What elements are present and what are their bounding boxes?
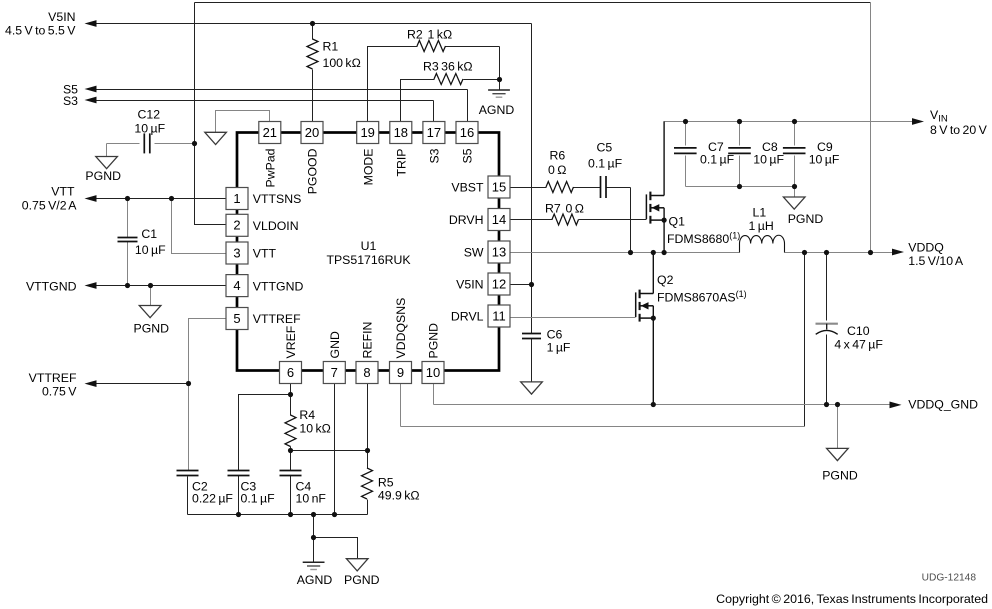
svg-text:13: 13	[492, 244, 506, 259]
svg-text:S5: S5	[461, 148, 475, 163]
svg-text:19: 19	[360, 125, 374, 140]
svg-text:21: 21	[263, 125, 277, 140]
svg-text:VTTGND: VTTGND	[26, 279, 77, 293]
svg-text:R6: R6	[550, 149, 566, 163]
svg-text:VTTREF: VTTREF	[253, 312, 301, 326]
svg-text:R3 36 kΩ: R3 36 kΩ	[423, 60, 473, 74]
svg-text:10: 10	[426, 365, 440, 380]
svg-text:0.1 µF: 0.1 µF	[588, 157, 623, 171]
svg-text:DRVL: DRVL	[451, 310, 484, 324]
svg-text:DRVH: DRVH	[449, 213, 484, 227]
svg-text:100 kΩ: 100 kΩ	[323, 56, 361, 70]
svg-text:9: 9	[397, 365, 404, 380]
svg-text:GND: GND	[328, 331, 342, 358]
svg-text:R4: R4	[299, 408, 315, 422]
svg-text:2: 2	[233, 218, 240, 233]
svg-text:S3: S3	[428, 148, 442, 163]
svg-text:C5: C5	[597, 140, 613, 154]
svg-text:AGND: AGND	[297, 573, 333, 587]
svg-text:R2 1 kΩ: R2 1 kΩ	[407, 28, 452, 42]
svg-text:PGND: PGND	[134, 321, 170, 335]
svg-text:PGOOD: PGOOD	[306, 148, 320, 194]
svg-text:V5IN: V5IN	[456, 278, 483, 292]
svg-text:C12: C12	[138, 108, 161, 122]
svg-text:4: 4	[233, 278, 240, 293]
svg-text:10 µF: 10 µF	[134, 122, 165, 136]
svg-text:4.5 V to 5.5 V: 4.5 V to 5.5 V	[5, 23, 76, 37]
svg-text:0 Ω: 0 Ω	[548, 163, 566, 177]
svg-text:FDMS8670AS(1): FDMS8670AS(1)	[657, 289, 747, 305]
svg-text:MODE: MODE	[361, 149, 375, 186]
svg-text:5: 5	[233, 311, 240, 326]
svg-text:R7 0 Ω: R7 0 Ω	[545, 202, 584, 216]
svg-text:16: 16	[460, 125, 474, 140]
svg-text:VTTREF: VTTREF	[29, 371, 77, 385]
svg-text:Q1: Q1	[669, 214, 686, 228]
svg-text:1 µF: 1 µF	[547, 340, 571, 354]
svg-text:R1: R1	[323, 39, 339, 53]
svg-text:UDG-12148: UDG-12148	[922, 572, 977, 583]
svg-text:0.1 µF: 0.1 µF	[241, 491, 276, 505]
svg-text:VBST: VBST	[451, 181, 484, 195]
svg-text:8 V to 20 V: 8 V to 20 V	[930, 123, 988, 137]
svg-text:AGND: AGND	[479, 103, 515, 117]
svg-text:SW: SW	[464, 246, 484, 260]
svg-text:PGND: PGND	[427, 323, 441, 359]
svg-text:U1: U1	[361, 239, 377, 253]
svg-text:1: 1	[233, 191, 240, 206]
svg-text:VREF: VREF	[284, 325, 298, 358]
svg-text:C10: C10	[847, 324, 870, 338]
svg-text:6: 6	[287, 365, 294, 380]
svg-text:10 nF: 10 nF	[296, 491, 327, 505]
svg-text:VTTSNS: VTTSNS	[253, 192, 302, 206]
svg-text:VLDOIN: VLDOIN	[253, 219, 299, 233]
svg-text:PGND: PGND	[344, 573, 380, 587]
svg-text:15: 15	[492, 179, 506, 194]
svg-text:20: 20	[305, 125, 319, 140]
svg-text:VTT: VTT	[253, 247, 277, 261]
svg-text:10 µF: 10 µF	[753, 153, 784, 167]
svg-text:14: 14	[492, 212, 506, 227]
svg-text:7: 7	[331, 365, 338, 380]
svg-text:17: 17	[427, 125, 441, 140]
svg-text:0.1 µF: 0.1 µF	[700, 153, 735, 167]
svg-text:4 x 47 µF: 4 x 47 µF	[834, 338, 883, 352]
svg-text:1 µH: 1 µH	[749, 219, 774, 233]
svg-text:12: 12	[492, 276, 506, 291]
svg-text:V5IN: V5IN	[48, 10, 75, 24]
svg-text:PwPad: PwPad	[264, 148, 278, 187]
svg-text:10 kΩ: 10 kΩ	[299, 422, 330, 436]
svg-text:Copyright © 2016, Texas Instru: Copyright © 2016, Texas Instruments Inco…	[716, 592, 988, 606]
svg-text:L1: L1	[753, 205, 767, 219]
svg-text:8: 8	[363, 365, 370, 380]
svg-text:R5: R5	[378, 475, 394, 489]
svg-text:0.75 V: 0.75 V	[42, 385, 77, 399]
svg-text:VDDQSNS: VDDQSNS	[394, 298, 408, 359]
svg-text:10 µF: 10 µF	[135, 243, 166, 257]
svg-text:10 µF: 10 µF	[809, 153, 840, 167]
svg-text:S3: S3	[63, 94, 78, 108]
svg-text:VDDQ_GND: VDDQ_GND	[908, 398, 978, 412]
svg-text:TRIP: TRIP	[395, 149, 409, 177]
svg-text:0.75 V/2 A: 0.75 V/2 A	[22, 198, 78, 212]
svg-text:1.5 V/10 A: 1.5 V/10 A	[908, 254, 964, 268]
svg-text:PGND: PGND	[85, 169, 121, 183]
svg-text:Q2: Q2	[657, 273, 674, 287]
svg-text:VDDQ: VDDQ	[908, 240, 944, 254]
svg-text:C1: C1	[141, 227, 157, 241]
svg-text:11: 11	[492, 308, 506, 323]
svg-text:VTTGND: VTTGND	[253, 279, 304, 293]
svg-text:VTT: VTT	[51, 184, 75, 198]
svg-text:49.9 kΩ: 49.9 kΩ	[378, 488, 420, 502]
svg-text:PGND: PGND	[788, 212, 824, 226]
svg-text:0.22 µF: 0.22 µF	[192, 491, 233, 505]
svg-text:REFIN: REFIN	[361, 322, 375, 359]
svg-text:TPS51716RUK: TPS51716RUK	[326, 253, 411, 267]
svg-text:18: 18	[394, 125, 408, 140]
svg-text:PGND: PGND	[822, 468, 858, 482]
svg-text:3: 3	[233, 245, 240, 260]
